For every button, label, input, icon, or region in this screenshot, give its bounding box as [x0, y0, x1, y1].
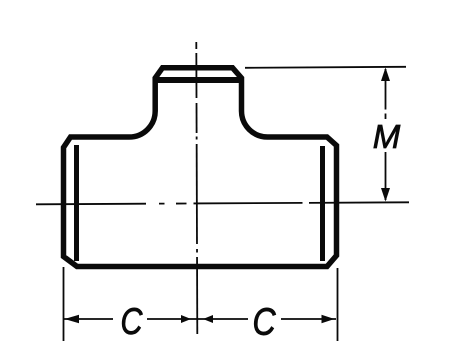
svg-text:M: M [373, 118, 401, 155]
svg-text:C: C [252, 301, 276, 343]
svg-text:C: C [121, 301, 143, 343]
